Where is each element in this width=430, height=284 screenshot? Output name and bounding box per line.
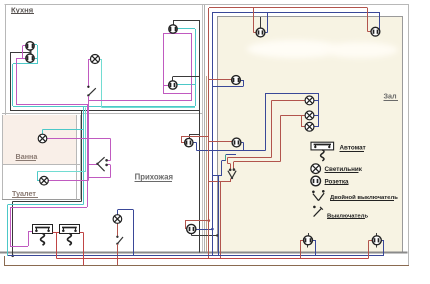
legend switch symbol — [313, 206, 323, 217]
wire magenta kitchen bottom jog — [88, 101, 90, 104]
wire red zal lamp2-3 — [281, 115, 302, 117]
socket X5 hall — [185, 138, 193, 146]
wire red hall bottom socket — [185, 221, 187, 229]
socket X10 zal — [232, 138, 241, 147]
wire dark kitchen bottom — [10, 110, 199, 112]
wall left outer below kitchen — [2, 115, 4, 200]
socket X9 zal — [232, 76, 241, 85]
wire red zal top — [209, 7, 368, 9]
wire blue bottom main — [8, 255, 384, 257]
wire dark stub zal socket A — [260, 17, 262, 28]
svg-text:Туалет: Туалет — [12, 189, 36, 198]
wire cyan kitchen mid socket — [177, 84, 195, 86]
wall zal top outer — [203, 4, 409, 6]
wire dark kitchen top to socket — [173, 20, 199, 22]
wire red drop zal socket A — [253, 8, 255, 33]
wire blue zal lamp feed — [265, 93, 267, 150]
lamp E6 zal — [305, 111, 314, 120]
svg-text:Автомат: Автомат — [340, 145, 366, 152]
wall kitchen right outer — [204, 5, 206, 253]
wire magenta kitchen lamp to switch — [88, 59, 90, 61]
wire red breaker link — [53, 232, 60, 234]
bath room background (pink) — [2, 115, 77, 164]
wall kitchen right inner — [202, 5, 204, 253]
double switch S4 zal — [228, 168, 236, 179]
lamp E2 bath — [38, 134, 47, 143]
double switch S2 hall — [96, 157, 108, 171]
wall bath right inner — [76, 115, 78, 200]
circuit breaker QF2 — [60, 225, 80, 246]
wire magenta kitchen sockets — [16, 58, 26, 60]
wire cyan kitchen sockets loop — [34, 44, 37, 46]
wire cyan riser kitchen right — [195, 29, 197, 106]
lamp E3 toilet — [40, 176, 49, 185]
lamp legend — [311, 164, 321, 174]
legend breaker symbol — [311, 142, 334, 161]
wire cyan kitchen top — [177, 28, 195, 30]
wire blue hall bottom socket — [196, 229, 213, 231]
wire cyan kitchen lamp drop — [100, 59, 102, 61]
wall hall-zal brown line — [206, 76, 208, 252]
wire magenta kitchen right socket loop — [163, 34, 165, 94]
wire cyan hall bundle 2 — [85, 108, 87, 172]
wire red zal lamp1 — [271, 100, 305, 102]
wire red zal lamp23 to switch — [234, 161, 281, 163]
wire blue zal left socket upper — [212, 86, 243, 88]
wire magenta double switch loop — [110, 138, 112, 160]
socket X12 zal — [372, 236, 381, 245]
lamp E1 kitchen — [91, 55, 100, 64]
wire cyan bath lamp — [42, 130, 44, 135]
wire red zal left socket lower — [209, 141, 232, 143]
wire red hall lamp to switch — [117, 223, 119, 236]
wire red bottom main — [56, 258, 368, 260]
svg-text:Ванна: Ванна — [16, 152, 39, 161]
wire blue drop zal socket B — [379, 12, 381, 32]
junction dark between kitchen sockets — [30, 49, 32, 55]
svg-text:Двойной выключатель: Двойной выключатель — [330, 194, 398, 201]
socket X11 zal — [304, 236, 313, 245]
wire blue zal bottom socket A — [313, 240, 316, 242]
wire magenta toilet lamp — [48, 180, 88, 182]
circuit breaker QF1 — [33, 225, 53, 246]
wall zal right outer — [408, 5, 410, 266]
wall kitchen bottom / bath top — [2, 113, 202, 115]
wire dark hall bottom socket — [191, 234, 193, 236]
wire blue drop zal socket A — [267, 12, 269, 32]
wire dark riser kitchen right — [199, 20, 201, 252]
wire red drop zal socket B — [367, 8, 369, 32]
lamp E7 zal — [305, 122, 314, 131]
wire magenta bath lamp — [47, 138, 110, 140]
wall bottom main — [0, 252, 408, 254]
wire red breaker1 drop — [56, 232, 58, 258]
lamp E5 zal — [305, 96, 314, 105]
socket legend — [311, 176, 321, 186]
wire blue stub zal socket lower — [243, 143, 245, 151]
wire red zal bottom socket A — [300, 240, 303, 242]
wire cyan hall bundle — [83, 106, 85, 204]
wire dark socket feed kitchen left — [10, 52, 12, 110]
wire blue zal inner drop — [218, 175, 220, 256]
zal room background (cream) — [217, 17, 402, 252]
wire dark stub bottom socket A — [308, 233, 310, 236]
socket X8 zal — [371, 27, 380, 36]
wire magenta to breaker — [10, 246, 28, 248]
socket X1 — [26, 42, 34, 50]
wire red zal bottom socket B — [368, 240, 372, 242]
wire magenta riser kitchen right — [191, 34, 193, 101]
wire brown bottom main — [4, 265, 409, 267]
wire magenta kitchen switch drop — [88, 96, 90, 181]
wire red zal left socket upper — [209, 79, 232, 81]
wire cyan kitchen bottom 1 — [13, 106, 195, 108]
wire red zal inner drop — [220, 181, 222, 258]
wall bath right outer — [80, 115, 82, 200]
switch S1 kitchen — [87, 86, 96, 97]
wire blue zal top — [212, 12, 379, 14]
wire dark stub bottom socket B — [376, 233, 378, 236]
wire cyan toilet lamp — [37, 172, 39, 181]
wall kitchen top — [5, 4, 204, 6]
lamp E4 hall — [113, 215, 122, 224]
wire blue zal inner path — [212, 175, 222, 177]
wire blue zal horizontal — [212, 150, 265, 152]
wire red hall mid socket — [181, 136, 209, 138]
wire dark hall mid socket stub — [189, 134, 191, 138]
wire red zal switch feed — [209, 181, 231, 183]
wall kitchen left — [5, 5, 7, 115]
wire red zal lamp1 to switch — [227, 157, 271, 159]
legend double switch symbol — [312, 190, 325, 201]
wire blue hall lamp — [117, 210, 119, 215]
wire cyan kitchen bottom 2 — [101, 107, 195, 109]
wire dark kitchen mid socket — [172, 77, 174, 81]
svg-text:Зал: Зал — [384, 92, 398, 101]
wire red breaker2 out — [80, 232, 84, 234]
wire magenta hall bundle — [87, 104, 89, 207]
wire red hall switch drop — [117, 244, 119, 265]
socket X6 hall — [187, 224, 196, 233]
wire teal zal segment — [225, 155, 227, 161]
wall bath-toilet divider — [2, 164, 80, 166]
wall toilet bottom — [2, 199, 80, 201]
svg-text:Прихожая: Прихожая — [135, 173, 173, 182]
switch S3 hall — [116, 236, 123, 245]
wall zal inner box — [218, 17, 403, 253]
socket X3 — [169, 25, 177, 33]
watermark blob — [247, 40, 398, 58]
socket X2 — [26, 54, 34, 62]
wire dark hall bundle — [81, 110, 83, 201]
wire blue hall mid socket — [193, 142, 197, 144]
wire blue zal bottom socket B — [381, 240, 384, 242]
socket X7 zal — [256, 28, 265, 37]
wire magenta kitchen bottom right — [88, 100, 191, 102]
wire blue riser — [212, 12, 214, 256]
wire red riser — [208, 8, 210, 259]
socket X4 — [169, 81, 177, 89]
wire magenta kitchen bottom left — [16, 104, 88, 106]
